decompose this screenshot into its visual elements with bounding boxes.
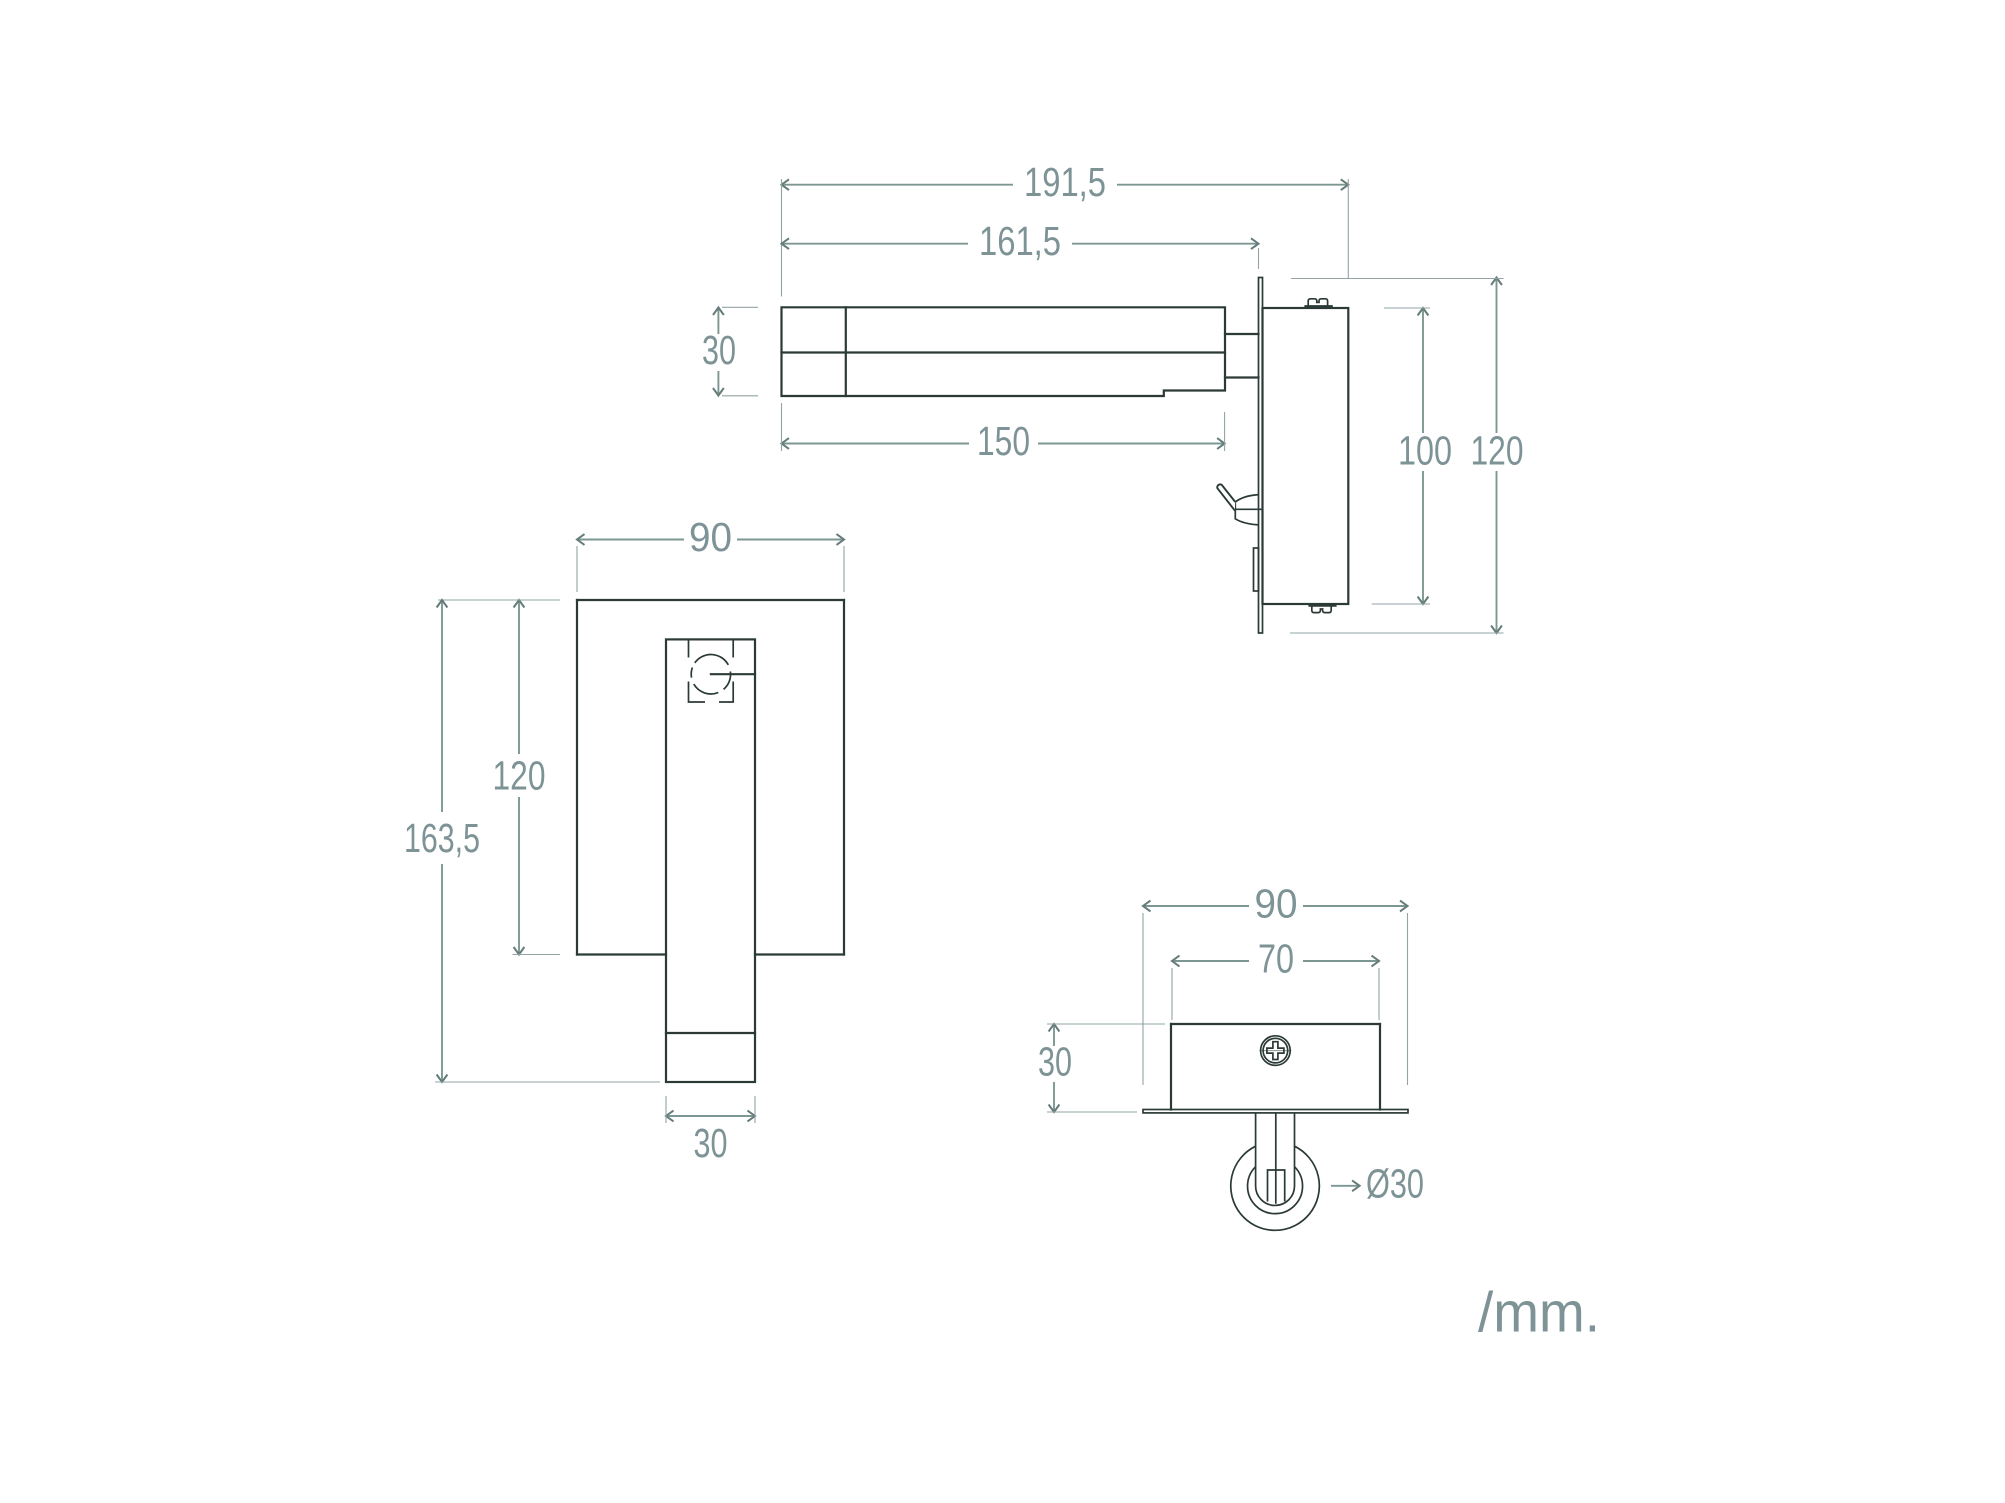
svg-text:70: 70 bbox=[1258, 936, 1294, 982]
svg-text:30: 30 bbox=[1038, 1039, 1072, 1085]
svg-text:191,5: 191,5 bbox=[1024, 159, 1106, 205]
svg-text:90: 90 bbox=[689, 514, 732, 560]
svg-text:Ø30: Ø30 bbox=[1366, 1160, 1424, 1206]
svg-text:120: 120 bbox=[493, 753, 546, 799]
svg-text:100: 100 bbox=[1398, 428, 1452, 474]
svg-text:120: 120 bbox=[1471, 428, 1524, 474]
svg-text:/mm.: /mm. bbox=[1478, 1280, 1600, 1344]
svg-text:30: 30 bbox=[702, 327, 736, 373]
svg-text:161,5: 161,5 bbox=[979, 218, 1061, 264]
svg-text:90: 90 bbox=[1255, 881, 1298, 927]
svg-text:163,5: 163,5 bbox=[404, 815, 480, 861]
svg-text:30: 30 bbox=[694, 1120, 728, 1166]
svg-text:150: 150 bbox=[977, 418, 1030, 464]
